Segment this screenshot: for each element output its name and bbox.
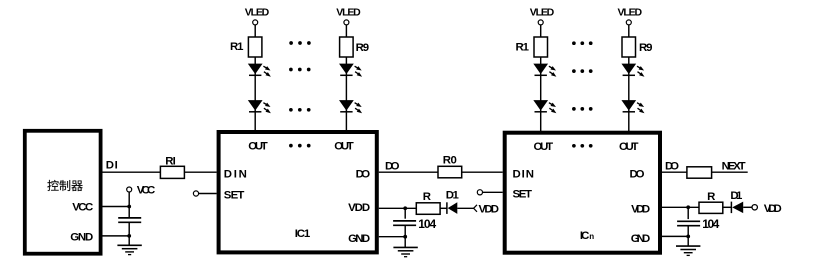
value label 104 (right) <box>702 217 719 231</box>
ground (controller) <box>117 245 141 254</box>
pin label VDD (ICn) <box>631 204 650 216</box>
wire controller VCC pin to junction <box>103 206 130 208</box>
resistor R9 (S4) <box>622 37 636 57</box>
designator label ICn <box>580 230 594 242</box>
node VCC terminal <box>127 187 132 192</box>
svg-text:R0: R0 <box>443 154 457 166</box>
net label VLED (string 2) <box>336 6 361 18</box>
LED D-S4-2 <box>622 101 644 114</box>
svg-text:VLED: VLED <box>336 6 361 18</box>
wire resistor to LEDs and IC pin OUT (S2) <box>345 57 347 131</box>
net label DO (ICn output) <box>665 160 679 172</box>
svg-text:104: 104 <box>702 217 719 231</box>
LED D-S3-2 <box>534 101 556 114</box>
svg-text:VLED: VLED <box>245 6 270 18</box>
svg-text:RI: RI <box>165 155 176 167</box>
net label VLED (string 1) <box>245 6 270 18</box>
wire VLED to resistor S4 <box>628 25 630 37</box>
value label R9 (string 4) <box>639 42 653 54</box>
pin label DIN (ICn) <box>513 168 535 180</box>
wire ICn GND pin to junction <box>662 235 688 237</box>
svg-text:GND: GND <box>631 233 651 245</box>
ground (mid) <box>393 247 417 256</box>
wire RI to IC1 pin DIN <box>184 171 216 173</box>
svg-text:IC1: IC1 <box>295 228 311 240</box>
svg-text:VDD: VDD <box>348 202 370 214</box>
resistor R0 <box>438 166 462 178</box>
capacitor C1 (decoupling) <box>118 218 141 222</box>
pin label DO (ICn) <box>630 168 645 180</box>
pin label DO (IC1) <box>356 169 371 181</box>
net label VDD (mid) <box>479 203 500 215</box>
wire ICn VDD pin to resistor R (right) <box>662 206 699 208</box>
svg-text:n: n <box>589 232 594 241</box>
wire IC1 GND pin to junction <box>379 236 405 238</box>
wire capacitor C2 to ground <box>404 225 406 247</box>
wire resistor to LEDs and IC pin OUT (S1) <box>254 57 256 131</box>
node SET terminal (IC2) <box>477 190 482 195</box>
node VLED terminal (S1) <box>253 20 258 25</box>
svg-text:GND: GND <box>70 231 93 243</box>
svg-text:DO: DO <box>665 160 679 172</box>
ellipsis dots between strings S1,S2 row 1 <box>289 41 311 45</box>
junction GND (mid) <box>403 235 407 239</box>
wire DO: IC1 to resistor R0 <box>379 171 438 173</box>
svg-text:SET: SET <box>224 190 245 202</box>
svg-text:R: R <box>423 191 431 203</box>
LED D-S1-2 <box>249 101 271 114</box>
wire VLED to resistor S3 <box>540 25 542 37</box>
svg-text:D1: D1 <box>730 190 743 202</box>
label 控制器 (controller) <box>47 180 82 191</box>
resistor R1 (S3) <box>534 37 548 57</box>
wire VLED to resistor S1 <box>254 25 256 37</box>
pin label SET (IC1) <box>224 190 245 202</box>
svg-text:104: 104 <box>418 217 436 231</box>
svg-text:DO: DO <box>385 160 400 172</box>
net label VDD (right) <box>764 203 782 215</box>
capacitor C3 value 104 <box>677 221 700 225</box>
svg-text:VCC: VCC <box>137 185 156 197</box>
junction GND <box>127 234 131 238</box>
designator label D1 (right) <box>730 190 743 202</box>
svg-text:VLED: VLED <box>530 7 555 19</box>
capacitor C2 value 104 <box>393 221 416 225</box>
LED D-S4-1 <box>622 64 644 77</box>
op IC1 block (box) <box>219 132 377 252</box>
wire junction to capacitor C2 <box>404 208 406 218</box>
svg-text:OUT: OUT <box>619 141 639 153</box>
LED D-S1-1 <box>249 64 271 77</box>
svg-text:R9: R9 <box>356 42 370 54</box>
designator label IC1 <box>295 228 311 240</box>
svg-text:NEXT: NEXT <box>722 160 746 172</box>
svg-text:DIN: DIN <box>224 169 247 181</box>
svg-text:R9: R9 <box>639 42 653 54</box>
svg-text:DO: DO <box>630 168 645 180</box>
ellipsis dots between strings S3,S4 row 1 <box>572 41 593 45</box>
wire R to diode D1 (right) <box>723 206 732 208</box>
value label R9 (string 2) <box>356 42 370 54</box>
wire R to diode D1 (mid) <box>440 207 447 209</box>
wire R0 to IC2 pin DIN <box>462 171 503 173</box>
svg-text:IC: IC <box>580 230 590 242</box>
ellipsis dots inside IC1 <box>289 144 311 148</box>
value label R (right) <box>707 191 715 203</box>
wire D1 to VDD terminal (right) <box>743 206 752 208</box>
svg-text:DI: DI <box>106 160 118 172</box>
resistor R (mid) <box>416 203 440 215</box>
LED D-S2-2 <box>340 101 362 114</box>
net label VLED (string 3) <box>530 7 555 19</box>
svg-text:R: R <box>707 191 715 203</box>
pin label OUT (ICn right) <box>619 141 639 153</box>
diode D1 (mid) <box>447 202 457 214</box>
pin label SET (ICn) <box>513 188 533 200</box>
resistor R9 (S2) <box>340 37 354 57</box>
svg-text:D1: D1 <box>446 190 460 202</box>
ellipsis dots row 2 <box>572 69 593 73</box>
wire controller GND pin to junction <box>103 235 130 237</box>
wire resistor to LEDs and IC pin OUT (S4) <box>628 57 630 131</box>
wire DO: ICn to series resistor <box>662 171 687 173</box>
value label R1 (string 3) <box>516 42 530 54</box>
value label RI <box>165 155 176 167</box>
svg-text:GND: GND <box>348 233 370 245</box>
net label DO (IC1 output) <box>385 160 400 172</box>
pin label GND (ICn) <box>631 233 651 245</box>
svg-text:R1: R1 <box>230 41 244 53</box>
svg-text:VLED: VLED <box>618 7 643 19</box>
designator label D1 (mid) <box>446 190 460 202</box>
pin label GND (IC1) <box>348 233 370 245</box>
net connector chevron VDD (mid) <box>474 205 477 212</box>
diode D1 (right) <box>731 202 743 214</box>
pin label OUT (IC1 left) <box>248 140 268 152</box>
ellipsis dots inside ICn <box>572 144 593 148</box>
net label DI <box>106 160 118 172</box>
ellipsis dots row 3 <box>572 107 593 111</box>
ground (right) <box>676 246 700 255</box>
pin label OUT (IC1 right) <box>334 140 354 152</box>
svg-text:R1: R1 <box>516 42 530 54</box>
net label NEXT <box>722 160 746 172</box>
resistor RI <box>160 166 184 178</box>
wire DI: controller to resistor RI <box>103 171 161 173</box>
wire junction to capacitor C3 <box>687 207 689 219</box>
ellipsis dots row 2 <box>289 68 311 72</box>
LED D-S3-1 <box>534 64 556 77</box>
wire IC1 VDD pin to resistor R <box>379 207 417 209</box>
svg-text:DIN: DIN <box>513 168 535 180</box>
svg-text:DO: DO <box>356 169 371 181</box>
net label VLED (string 4) <box>618 7 643 19</box>
op ICn block (box) <box>505 133 660 253</box>
wire SET terminal to IC1 pin SET <box>198 193 216 195</box>
junction VCC <box>127 205 131 209</box>
resistor R (right) <box>699 202 723 213</box>
wire VCC terminal down to capacitor C1 <box>128 192 130 218</box>
svg-text:VCC: VCC <box>72 201 93 213</box>
pin label VDD (IC1) <box>348 202 370 214</box>
wire VLED to resistor S2 <box>345 25 347 37</box>
resistor R1 (S1) <box>248 37 262 57</box>
junction VDD (right) <box>686 205 690 209</box>
svg-text:OUT: OUT <box>248 140 268 152</box>
node VLED terminal (S2) <box>344 20 349 25</box>
node VDD terminal (right) <box>752 205 757 210</box>
pin label GND (controller) <box>70 231 93 243</box>
pin label VCC (controller) <box>72 201 93 213</box>
svg-text:SET: SET <box>513 188 533 200</box>
wire resistor to LEDs and IC pin OUT (S3) <box>540 57 542 131</box>
value label R (mid) <box>423 191 431 203</box>
resistor (series, unlabeled) <box>687 167 712 178</box>
wire capacitor C1 to ground <box>128 222 130 245</box>
junction GND (right) <box>686 235 690 239</box>
value label R0 <box>443 154 457 166</box>
svg-text:OUT: OUT <box>534 141 554 153</box>
value label R1 (string 1) <box>230 41 244 53</box>
wire resistor to NEXT <box>712 171 748 173</box>
wire capacitor C3 to ground <box>687 226 689 246</box>
node VLED terminal (S3) <box>538 20 543 25</box>
pin label OUT (ICn left) <box>534 141 554 153</box>
pin label DIN (IC1) <box>224 169 247 181</box>
node SET terminal (IC1) <box>193 191 198 196</box>
svg-text:OUT: OUT <box>334 140 354 152</box>
controller block U-CTRL (box) <box>25 131 101 254</box>
svg-text:VDD: VDD <box>764 203 782 215</box>
svg-text:VDD: VDD <box>479 203 500 215</box>
LED D-S2-1 <box>340 64 362 77</box>
net label VCC <box>137 185 156 197</box>
junction VDD (mid) <box>403 206 407 210</box>
wire D1 to VDD chevron (mid) <box>457 207 473 209</box>
node VLED terminal (S4) <box>626 20 631 25</box>
ellipsis dots row 3 <box>289 108 311 112</box>
svg-text:VDD: VDD <box>631 204 650 216</box>
wire SET terminal to IC2 pin SET <box>482 191 502 193</box>
value label 104 (mid) <box>418 217 436 231</box>
